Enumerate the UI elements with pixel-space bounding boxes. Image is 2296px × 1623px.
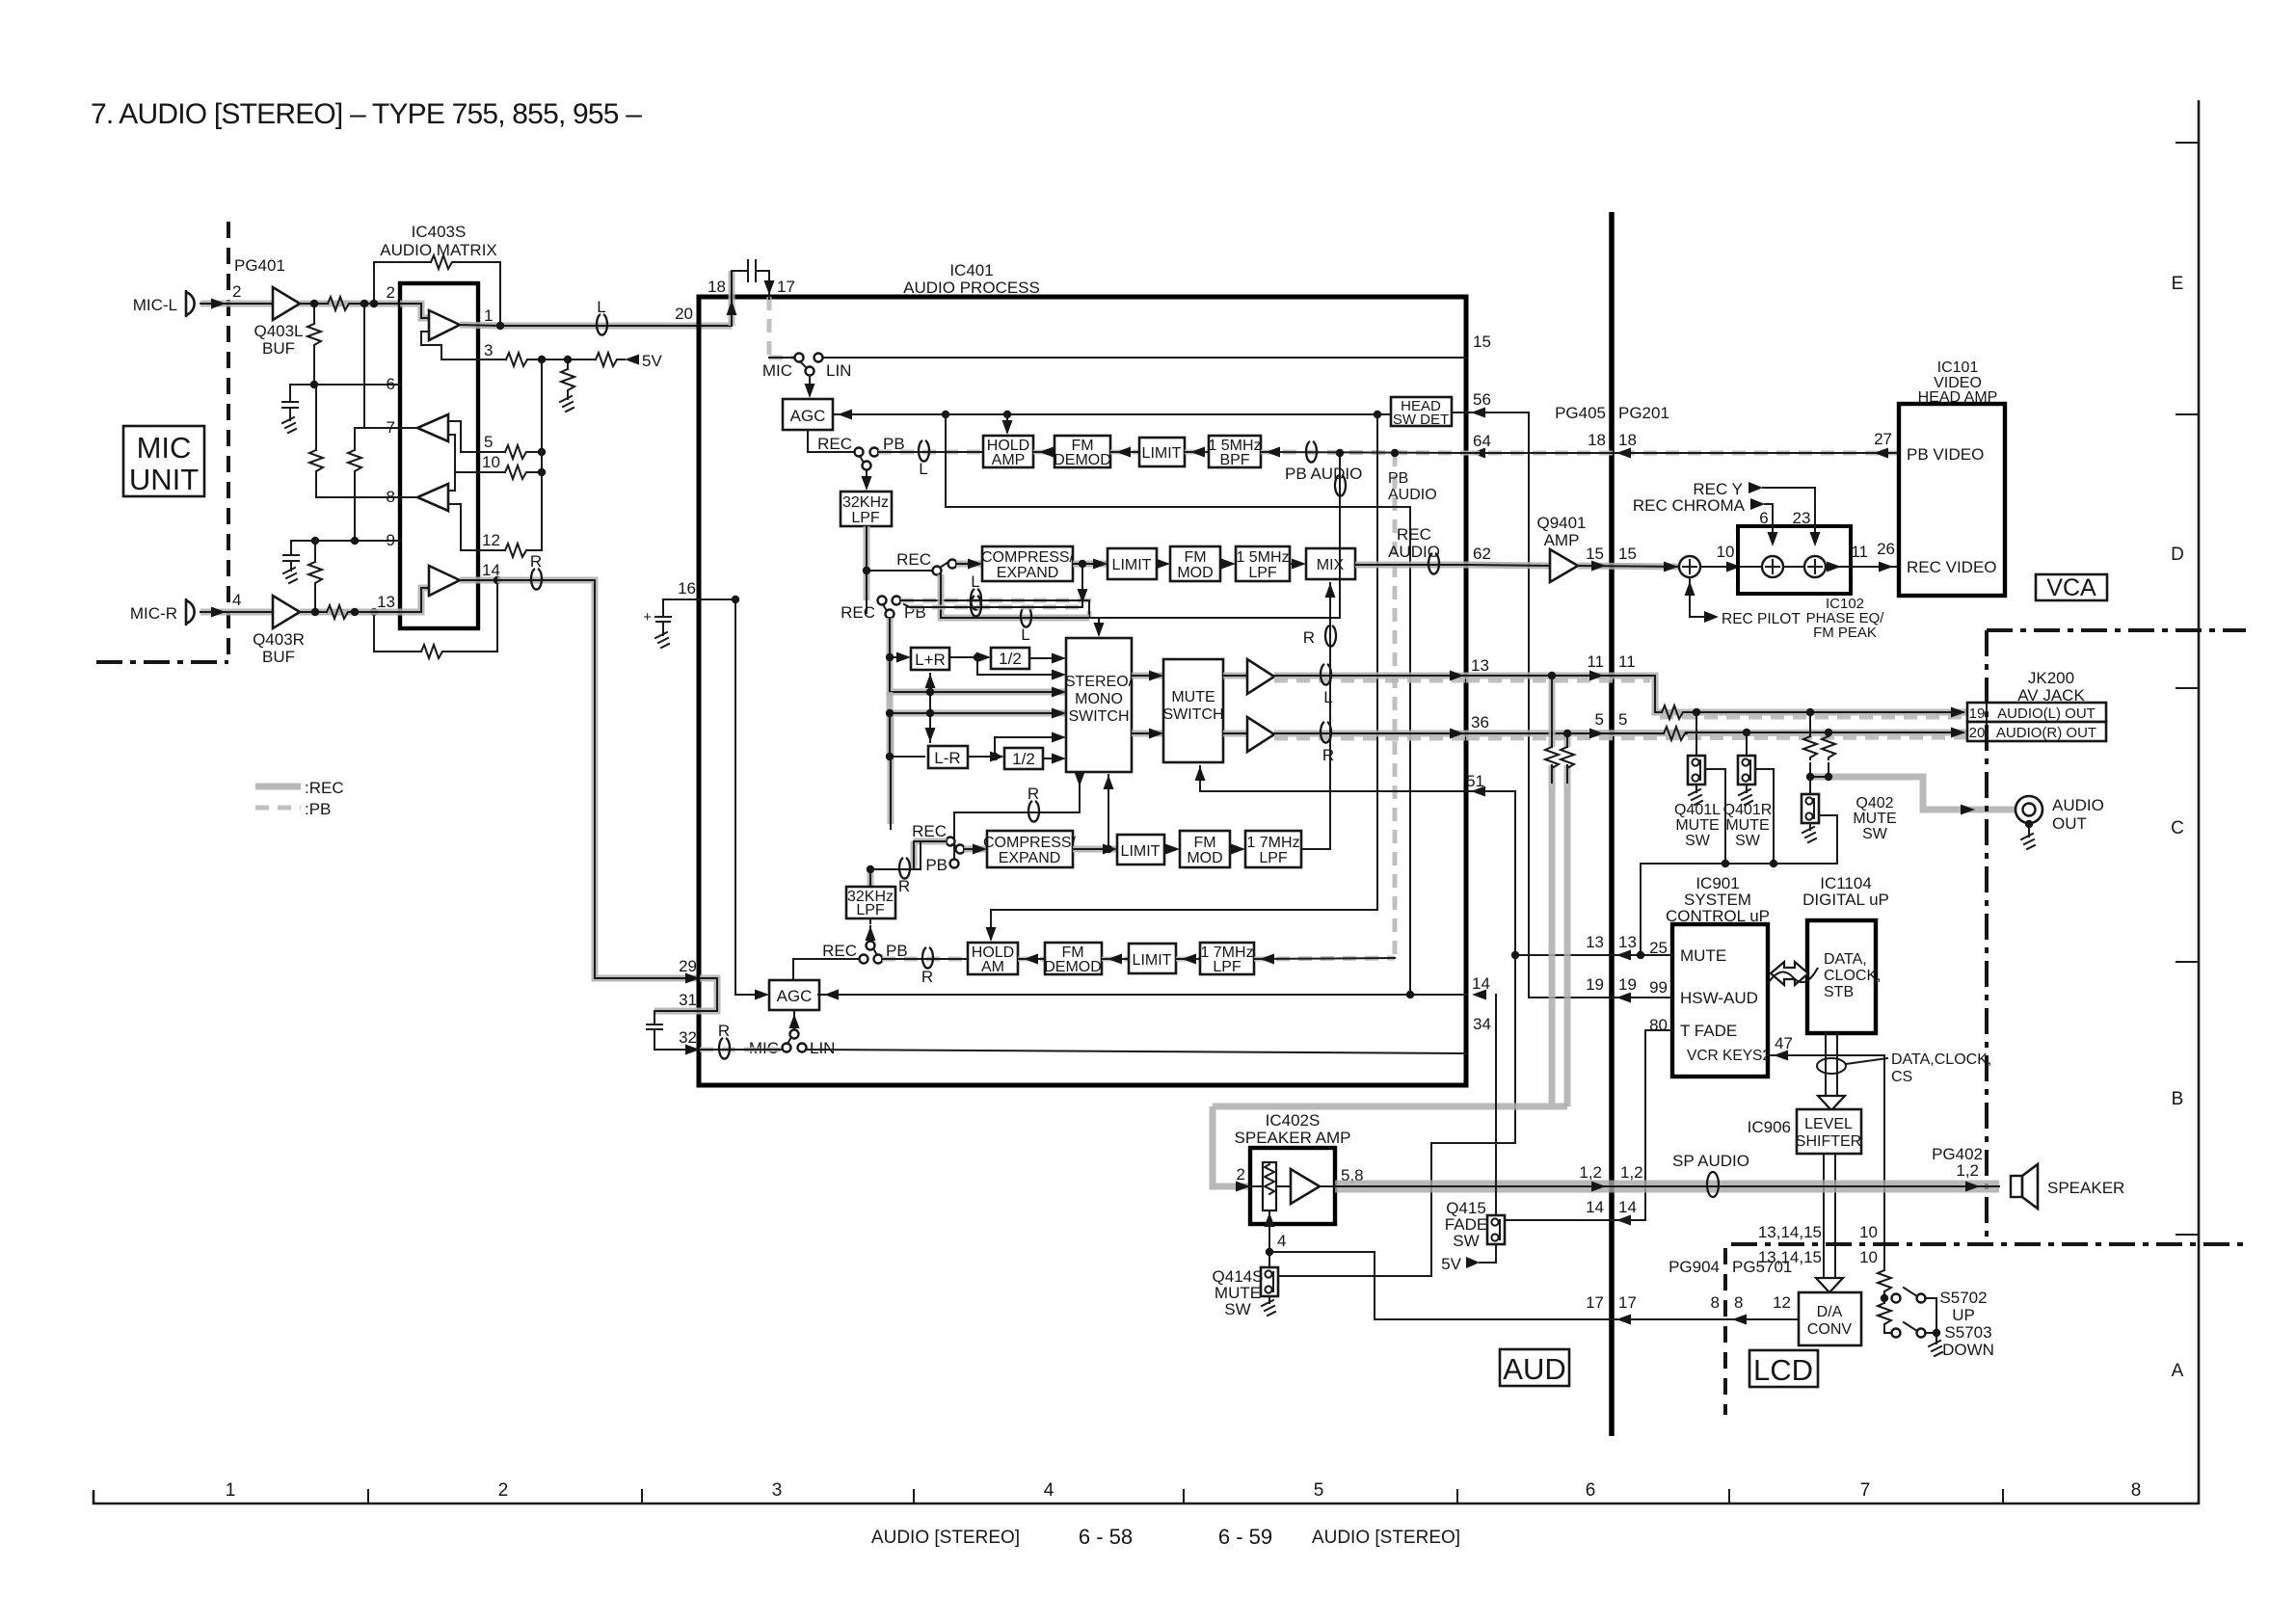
svg-text:PG201: PG201 bbox=[1618, 404, 1669, 422]
resistor pin 12 bbox=[505, 544, 528, 557]
svg-text:IC401: IC401 bbox=[949, 261, 993, 279]
wire compress L out bbox=[1073, 559, 1108, 570]
wire Q9401 to adder bbox=[1578, 561, 1680, 572]
STEREO/MONO SWITCH block bbox=[1065, 638, 1134, 772]
svg-text:1,2: 1,2 bbox=[1579, 1163, 1602, 1182]
wire pin64 PB audio into BPF (PB gray) bbox=[1261, 447, 1466, 458]
wire L PB matrix row (PB gray) bbox=[900, 600, 1089, 618]
node volume bbox=[1881, 1294, 1888, 1302]
resistor volume upper bbox=[1878, 1270, 1891, 1298]
svg-text:SW: SW bbox=[1735, 833, 1761, 849]
svg-text:10: 10 bbox=[1859, 1223, 1878, 1241]
IC403S body box bbox=[400, 283, 478, 628]
LIMIT block (L PB) bbox=[1139, 438, 1185, 466]
resistor L out bbox=[1662, 705, 1685, 719]
IC401 title bbox=[903, 261, 1040, 297]
svg-text:SHIFTER: SHIFTER bbox=[1796, 1133, 1861, 1150]
node top loop L bbox=[360, 300, 368, 307]
wire D/A CONV line bbox=[1375, 1315, 1799, 1325]
svg-text:14: 14 bbox=[1586, 1198, 1604, 1216]
op-amp A2 (pin7) bbox=[400, 414, 448, 441]
svg-text:LPF: LPF bbox=[851, 510, 880, 526]
svg-text:PG405: PG405 bbox=[1555, 404, 1606, 422]
op-amp A4 (R out) bbox=[400, 566, 460, 612]
wire L+R to half block bbox=[949, 652, 991, 663]
arrow into speaker amp bbox=[1236, 1182, 1250, 1192]
svg-text:LPF: LPF bbox=[1248, 565, 1277, 581]
LIMIT block (L REC) bbox=[1108, 548, 1157, 579]
svg-text:REC: REC bbox=[1397, 525, 1431, 544]
svg-text:5: 5 bbox=[484, 433, 493, 451]
svg-text:JK200: JK200 bbox=[2028, 669, 2074, 687]
wire op-amp A4 output (gray REC) bbox=[460, 577, 497, 584]
svg-text:FM: FM bbox=[1193, 835, 1215, 851]
svg-text:Q403R: Q403R bbox=[253, 630, 305, 649]
wire limit to fm mod bbox=[1156, 559, 1170, 570]
wire sw1 pivot down to 32KHz LPF bbox=[862, 470, 872, 491]
coil R pin32 bbox=[719, 1038, 730, 1059]
wire stereo sw bottom out R bbox=[954, 772, 1085, 860]
coil REC AUDIO bbox=[1428, 553, 1439, 574]
svg-text::PB: :PB bbox=[305, 800, 331, 818]
coil PB AUDIO bbox=[1306, 441, 1317, 463]
svg-text:REC CHROMA: REC CHROMA bbox=[1633, 496, 1746, 515]
svg-text:REC VIDEO: REC VIDEO bbox=[1907, 558, 1997, 576]
svg-text:13: 13 bbox=[1471, 656, 1489, 675]
svg-text:SPEAKER: SPEAKER bbox=[2047, 1179, 2124, 1197]
svg-text:R: R bbox=[718, 1022, 730, 1040]
svg-text:32: 32 bbox=[679, 1028, 697, 1047]
svg-text:80: 80 bbox=[1649, 1016, 1668, 1034]
switch MIC/LIN (top) bbox=[795, 354, 823, 376]
arrow into pin 32 bbox=[685, 1045, 700, 1055]
wire pin 7 row bbox=[355, 304, 400, 428]
node hold amp top feed bbox=[1003, 411, 1011, 418]
wire lpf2 riser to MIX bbox=[1301, 583, 1336, 849]
serial bus IC1104 to level shifter bbox=[1817, 1033, 1887, 1110]
svg-text:L: L bbox=[971, 572, 979, 591]
svg-text:6 - 58: 6 - 58 bbox=[1079, 1525, 1133, 1549]
wire pin 3 to 5V bbox=[441, 359, 625, 360]
svg-text:IC101: IC101 bbox=[1937, 359, 1979, 376]
wire pb riser into lpf3 (PB gray) bbox=[1254, 954, 1395, 965]
resistor bias left A bbox=[309, 385, 323, 497]
svg-text:14: 14 bbox=[1472, 974, 1490, 993]
svg-text:PG5701: PG5701 bbox=[1732, 1258, 1792, 1276]
COMPRESS/EXPAND block L bbox=[981, 546, 1075, 581]
wire mute control bus bbox=[1641, 769, 1837, 955]
svg-text:2: 2 bbox=[387, 283, 395, 302]
svg-text:B: B bbox=[2172, 1089, 2184, 1109]
capacitor pin6 to ground bbox=[282, 385, 298, 433]
svg-text:VCA: VCA bbox=[2046, 574, 2096, 601]
ruler tick 6 bbox=[1456, 1490, 1458, 1503]
svg-text:AUDIO MATRIX: AUDIO MATRIX bbox=[380, 241, 497, 259]
IC102 box bbox=[1738, 526, 1851, 594]
svg-text:26: 26 bbox=[1877, 540, 1895, 558]
DATA CLOCK STB text bbox=[1824, 951, 1882, 1000]
node Q403R line b bbox=[351, 608, 359, 616]
svg-text:18: 18 bbox=[1618, 431, 1637, 449]
AUD section bold divider (PG201) bbox=[1609, 212, 1615, 1436]
svg-text:34: 34 bbox=[1473, 1015, 1491, 1033]
wire MIC-R input (gray REC) bbox=[200, 609, 299, 616]
arrow into PG401 (MIC-L) bbox=[211, 299, 226, 309]
wire stereo sw to mute sw L (gray REC+PB) bbox=[1132, 671, 1163, 681]
wire MIX out REC AUDIO to pin62 (gray REC) bbox=[1355, 562, 1466, 569]
svg-text:+: + bbox=[643, 609, 652, 625]
capacitor pin31/32 bbox=[647, 1011, 696, 1050]
resistor audio out R bbox=[1822, 732, 1835, 777]
svg-text:5V: 5V bbox=[1441, 1255, 1461, 1273]
node bottom loop bbox=[370, 608, 378, 616]
wire half2 to stereo switch bbox=[1043, 754, 1066, 764]
wire 32KHz LPF L down distribution (gray REC) bbox=[864, 526, 870, 613]
svg-text:HSW-AUD: HSW-AUD bbox=[1680, 989, 1758, 1007]
svg-text:PB VIDEO: PB VIDEO bbox=[1907, 445, 1984, 464]
MIC UNIT boundary dash-dot vertical bbox=[227, 222, 230, 662]
MIX block bbox=[1306, 548, 1355, 579]
svg-text:R: R bbox=[1303, 628, 1315, 647]
svg-text:27: 27 bbox=[1874, 430, 1892, 448]
svg-text:Q402: Q402 bbox=[1855, 795, 1893, 811]
wire L audio out external (gray REC+PB) bbox=[1466, 671, 1967, 718]
wire PB VIDEO line (PB gray) bbox=[1466, 448, 1899, 459]
svg-text:CS: CS bbox=[1891, 1069, 1912, 1085]
wire Q414S to D/A line bbox=[1269, 1252, 1375, 1319]
svg-text:EXPAND: EXPAND bbox=[997, 565, 1059, 581]
transistor Q415 fade sw bbox=[1445, 995, 1505, 1250]
node L out a bbox=[1693, 708, 1700, 716]
wire MUTE line bbox=[1511, 950, 1672, 961]
wire SP AUDIO heavy (gray REC) bbox=[1335, 1182, 1999, 1192]
wire L REC out of pin1 (gray) bbox=[500, 323, 732, 330]
LEVEL SHIFTER block bbox=[1796, 1109, 1861, 1154]
svg-text:6: 6 bbox=[1586, 1480, 1596, 1501]
wire pin29 loop to pin31 (gray REC) bbox=[654, 978, 717, 1011]
svg-text:REC PILOT: REC PILOT bbox=[1722, 611, 1801, 627]
svg-text:MUTE: MUTE bbox=[1171, 689, 1215, 705]
wire R PB row to HOLD AM (PB gray) bbox=[882, 957, 968, 962]
resistor to 5V bbox=[596, 353, 619, 366]
head sw det feed row bbox=[833, 410, 1391, 420]
svg-text:L: L bbox=[1021, 625, 1029, 644]
border tick 4 bbox=[2176, 961, 2199, 963]
svg-text:DATA,CLOCK,: DATA,CLOCK, bbox=[1891, 1051, 1991, 1068]
transistor Q403R buffer bbox=[253, 596, 305, 666]
wire BPF to LIMIT bbox=[1185, 447, 1209, 458]
wire IC403S top feedback loop bbox=[374, 262, 500, 326]
svg-text:S5703: S5703 bbox=[1944, 1323, 1991, 1342]
legend PB sample bbox=[255, 800, 331, 818]
wire AGC2 bottom mic/lin switch bbox=[783, 1010, 807, 1052]
node pin14 bbox=[494, 576, 501, 584]
wire compress R out bbox=[1073, 844, 1117, 855]
svg-text:AUDIO: AUDIO bbox=[1388, 487, 1437, 503]
svg-text:LIN: LIN bbox=[810, 1039, 835, 1057]
svg-text:13: 13 bbox=[1618, 933, 1637, 951]
ruler tick 8 bbox=[2002, 1490, 2004, 1503]
wire MIC/LIN pivot to AGC bbox=[805, 376, 815, 398]
amp triangle speaker bbox=[1250, 1169, 1335, 1204]
svg-text:AUD: AUD bbox=[1503, 1352, 1565, 1386]
coil L on pin1 wire bbox=[597, 314, 607, 335]
1 5MHz BPF block bbox=[1208, 436, 1261, 468]
volume resistor inside speaker amp bbox=[1263, 1162, 1276, 1227]
svg-text:13: 13 bbox=[1586, 933, 1604, 951]
svg-text:10: 10 bbox=[482, 453, 500, 471]
switch L compress select bbox=[933, 560, 957, 575]
half block top bbox=[991, 648, 1029, 669]
svg-text:2: 2 bbox=[232, 282, 241, 301]
svg-text:47: 47 bbox=[1775, 1034, 1793, 1052]
svg-text:11: 11 bbox=[1618, 652, 1636, 671]
svg-text:19: 19 bbox=[1586, 975, 1604, 994]
svg-text:FM PEAK: FM PEAK bbox=[1813, 625, 1877, 641]
svg-text:PB: PB bbox=[925, 856, 948, 874]
svg-text:VCR KEYS2: VCR KEYS2 bbox=[1687, 1048, 1771, 1064]
REC Y feed bbox=[1693, 480, 1820, 546]
svg-text:Q9401: Q9401 bbox=[1536, 514, 1586, 532]
switch S5702 UP bbox=[1892, 1288, 1988, 1333]
svg-text:D/A: D/A bbox=[1817, 1304, 1843, 1320]
wire pin 9 row bbox=[291, 540, 400, 542]
FM MOD block (R) bbox=[1180, 831, 1230, 867]
switch S5703 DOWN bbox=[1892, 1322, 1994, 1359]
wire adder to IC102 bbox=[1700, 562, 1769, 572]
svg-text:R: R bbox=[898, 877, 910, 895]
pin 29 wire into box bbox=[685, 973, 700, 984]
svg-text:REC: REC bbox=[841, 603, 875, 622]
wire limit3 to demod2 bbox=[1102, 954, 1129, 965]
bidirectional bus arrow bbox=[1767, 962, 1818, 985]
svg-text:L: L bbox=[919, 460, 927, 478]
wire MIC/LIN input row (PB gray) bbox=[769, 356, 1466, 360]
svg-text:AMP: AMP bbox=[992, 452, 1026, 468]
node pin10 bbox=[538, 468, 546, 476]
32KHz LPF block (R) bbox=[846, 887, 895, 918]
svg-text:1: 1 bbox=[226, 1480, 236, 1501]
wire AGC2 top to REC contact bbox=[793, 959, 859, 980]
coil L matrix row bbox=[971, 589, 981, 610]
wire L-R direct to stereo switch bbox=[995, 732, 1066, 758]
wire stereo sw to mute sw R (gray REC+PB) bbox=[1132, 729, 1163, 739]
svg-text:MIC-R: MIC-R bbox=[130, 604, 177, 623]
PB AUDIO riser label bbox=[1388, 470, 1437, 503]
svg-text:MUTE: MUTE bbox=[1680, 946, 1726, 965]
DATA CLOCK CS label bbox=[1891, 1051, 1991, 1085]
node Q403L bias bbox=[310, 300, 318, 307]
wire L pb bypass to stereo switch top bbox=[941, 574, 1105, 637]
capacitor pin 16 bbox=[643, 599, 735, 648]
node feedback L bbox=[370, 300, 378, 307]
wire op-amp A1 output bbox=[460, 325, 500, 326]
svg-text:19: 19 bbox=[1969, 705, 1986, 722]
svg-text:T FADE: T FADE bbox=[1680, 1022, 1737, 1040]
svg-text:12: 12 bbox=[1773, 1293, 1791, 1312]
AGC block (top) bbox=[783, 399, 833, 430]
svg-text:AUDIO: AUDIO bbox=[1388, 543, 1440, 561]
32KHz LPF block (L) bbox=[841, 492, 892, 526]
wire pin12 row bbox=[478, 549, 542, 551]
resistor Q403L bias vertical bbox=[307, 304, 321, 385]
IC901 box bbox=[1672, 924, 1768, 1077]
wire AGC2 right input from fade line bbox=[818, 990, 1467, 1000]
HEAD SW DET block bbox=[1391, 397, 1452, 428]
svg-text:13: 13 bbox=[377, 593, 395, 611]
ruler tick 2 bbox=[367, 1490, 369, 1503]
coil R mix riser bbox=[1325, 625, 1336, 647]
wire half to stereo switch bbox=[1029, 653, 1066, 664]
IC402S box bbox=[1250, 1148, 1335, 1224]
svg-text:31: 31 bbox=[679, 991, 697, 1009]
wire R rec into compress sw bbox=[914, 841, 947, 869]
wire AGC1 out to REC/PB switch bbox=[808, 430, 854, 452]
svg-text:SWITCH: SWITCH bbox=[1068, 708, 1129, 725]
svg-text:LIMIT: LIMIT bbox=[1142, 445, 1182, 462]
cross link adders bbox=[925, 674, 936, 742]
node pin1 out bbox=[496, 322, 504, 330]
svg-text:99: 99 bbox=[1649, 978, 1668, 997]
svg-text:18: 18 bbox=[707, 278, 726, 296]
svg-text:19: 19 bbox=[1618, 975, 1637, 994]
node PB riser top bbox=[1391, 449, 1399, 457]
IC101 title bbox=[1918, 359, 1998, 406]
wire gray vertical to L-R bbox=[886, 692, 924, 760]
resistor pin 3 bbox=[506, 353, 529, 366]
wire fm mod to lpf bbox=[1220, 559, 1236, 570]
bottom ruler line bbox=[93, 1490, 2199, 1503]
IC1104 title bbox=[1802, 874, 1889, 909]
svg-text:R: R bbox=[530, 552, 542, 571]
serial bus level shifter to D/A bbox=[1816, 1154, 1843, 1292]
svg-text:36: 36 bbox=[1471, 713, 1489, 732]
svg-text:2: 2 bbox=[498, 1480, 509, 1501]
svg-text:11: 11 bbox=[1587, 652, 1604, 671]
resistor R out bbox=[1664, 727, 1687, 740]
svg-text:MOD: MOD bbox=[1187, 850, 1222, 866]
fade feed riser upper bbox=[946, 414, 1410, 995]
svg-text:PG401: PG401 bbox=[234, 256, 285, 275]
svg-text:MOD: MOD bbox=[1177, 565, 1213, 581]
wire Q403R output (gray REC) bbox=[300, 609, 400, 616]
svg-text:2: 2 bbox=[1237, 1165, 1245, 1184]
LCD boundary dash-dot bbox=[1731, 1242, 2246, 1246]
wire R rec gray to stereo mono input (gray REC) bbox=[891, 708, 1066, 830]
wire pin32 R row (PB gray) bbox=[700, 1050, 1466, 1053]
svg-text:MIC: MIC bbox=[762, 361, 792, 380]
svg-text:1,2: 1,2 bbox=[1956, 1161, 1979, 1180]
resistor pin9 bias vertical bbox=[308, 541, 322, 612]
svg-text:AGC: AGC bbox=[790, 407, 826, 425]
svg-text:SW: SW bbox=[1862, 826, 1888, 842]
svg-text:LPF: LPF bbox=[1259, 850, 1288, 866]
svg-text:DEMOD: DEMOD bbox=[1044, 959, 1102, 975]
HOLD AM block bbox=[968, 943, 1018, 975]
VCA label box bbox=[2036, 574, 2107, 601]
svg-text:BPF: BPF bbox=[1219, 452, 1249, 468]
resistor bottom feedback bbox=[421, 645, 444, 658]
JK200 AV JACK label bbox=[2017, 669, 2085, 705]
svg-text:Q403L: Q403L bbox=[254, 322, 303, 340]
svg-text:29: 29 bbox=[679, 957, 697, 975]
IC101 box bbox=[1899, 404, 2005, 596]
svg-text:L+R: L+R bbox=[915, 651, 946, 669]
svg-text:UNIT: UNIT bbox=[129, 463, 199, 496]
wire L audio out to pin13 (gray REC+PB) bbox=[1274, 671, 1466, 681]
svg-text:SW: SW bbox=[1453, 1232, 1479, 1250]
svg-text:1 5MHz: 1 5MHz bbox=[1236, 549, 1289, 566]
IC102 title bbox=[1806, 596, 1885, 641]
svg-text:DATA,: DATA, bbox=[1824, 951, 1867, 968]
svg-text:IC906: IC906 bbox=[1748, 1118, 1791, 1136]
svg-text::REC: :REC bbox=[305, 779, 344, 797]
svg-text:20: 20 bbox=[1969, 725, 1986, 741]
resistor volume lower bbox=[1878, 1298, 1891, 1333]
svg-text:SP AUDIO: SP AUDIO bbox=[1672, 1152, 1749, 1170]
node 5V divider bbox=[564, 356, 572, 363]
svg-text:8: 8 bbox=[1711, 1293, 1720, 1312]
wire lpf3 to limit3 bbox=[1176, 954, 1200, 965]
wire L gray drop to speaker amp (gray REC) bbox=[1213, 672, 1567, 1186]
node pin6 bias bbox=[310, 381, 318, 388]
arrow into HOLD AM top bbox=[986, 927, 997, 942]
wire MIC-L input (gray REC) bbox=[200, 301, 299, 307]
wire pin 6 row bbox=[290, 384, 400, 386]
svg-text:R: R bbox=[1028, 785, 1039, 803]
REC CHROMA feed bbox=[1633, 496, 1778, 546]
MUTE SWITCH block bbox=[1162, 659, 1223, 762]
svg-text:EXPAND: EXPAND bbox=[999, 850, 1061, 866]
svg-text:AGC: AGC bbox=[777, 987, 813, 1005]
L+R adder block bbox=[911, 648, 949, 670]
transistor Q401L mute sw bbox=[1674, 712, 1721, 849]
svg-text:7. AUDIO [STEREO] – TYPE 755,: 7. AUDIO [STEREO] – TYPE 755, 855, 955 – bbox=[91, 98, 642, 130]
svg-text:REC: REC bbox=[817, 435, 852, 453]
svg-text:AUDIO [STEREO]: AUDIO [STEREO] bbox=[1312, 1528, 1460, 1548]
mic symbol MIC-R bbox=[186, 599, 195, 625]
transistor Q403L buffer bbox=[254, 287, 303, 358]
coil L bypass2 bbox=[971, 596, 981, 617]
svg-text:3: 3 bbox=[484, 341, 493, 359]
coil L on PB row bbox=[919, 440, 929, 462]
svg-text:C: C bbox=[2171, 818, 2184, 838]
wire L PB row to HOLD AMP (PB gray) bbox=[878, 450, 983, 455]
transistor Q9401 amp bbox=[1536, 514, 1586, 582]
wire Q415 gate bbox=[1505, 1219, 1645, 1221]
wire L pb bypass around compressor bbox=[904, 564, 1088, 607]
svg-text:L: L bbox=[1323, 688, 1332, 706]
svg-text:OUT: OUT bbox=[2052, 814, 2087, 833]
wire Q414S gate bbox=[1278, 1275, 1431, 1277]
wire hold-am top feed riser bbox=[991, 414, 1377, 939]
svg-text:12: 12 bbox=[482, 531, 500, 549]
resistor bias left B bbox=[348, 428, 361, 541]
node fade riser bottom bbox=[1406, 991, 1414, 998]
svg-text:AUDIO: AUDIO bbox=[2052, 796, 2104, 814]
resistor L speaker feed bbox=[1545, 747, 1559, 770]
svg-text:SW DET: SW DET bbox=[1393, 412, 1449, 428]
PG904 PG5701 dashed divider bbox=[1723, 1248, 1727, 1415]
svg-text:DEMOD: DEMOD bbox=[1054, 452, 1111, 468]
svg-text:BUF: BUF bbox=[262, 339, 295, 358]
svg-text:DIGITAL uP: DIGITAL uP bbox=[1802, 891, 1889, 909]
svg-text:1 7MHz: 1 7MHz bbox=[1246, 835, 1299, 851]
svg-text:62: 62 bbox=[1473, 545, 1491, 563]
svg-text:MIC: MIC bbox=[137, 431, 192, 465]
svg-text:R: R bbox=[921, 968, 933, 986]
ruler tick 3 bbox=[641, 1490, 643, 1503]
